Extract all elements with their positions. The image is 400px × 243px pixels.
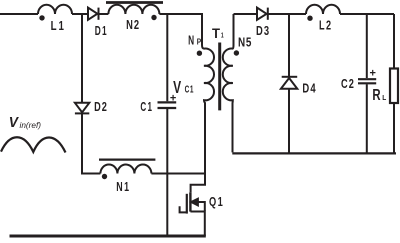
wire D4 to output rail [288,89,290,154]
svg-text:L2: L2 [319,19,333,33]
transistor Q1 MOSFET [191,174,205,193]
svg-text:P: P [197,38,201,47]
svg-text:N: N [188,34,194,48]
winding N1 [100,165,151,174]
transformer T1 primary winding NP [202,14,214,174]
wire D2 to N1 [82,113,100,173]
svg-text:1: 1 [221,30,224,39]
wire C2 to output rail [366,84,368,153]
svg-text:D3: D3 [256,24,270,38]
svg-text:in(ref): in(ref) [20,121,42,130]
svg-text:R: R [372,87,381,104]
resistor RL [393,14,395,69]
wire C1 to bottom rail [166,109,168,236]
wire D1 to N2 [99,13,109,15]
svg-text:D2: D2 [94,100,108,114]
wire branch to C1 [166,14,168,101]
wire branch to D2 [81,14,83,103]
wire secondary top to D3 [234,13,258,15]
svg-text:C1: C1 [185,85,195,96]
svg-text:N2: N2 [126,18,140,32]
inductor L1 [38,5,72,14]
polarity dot N2 [151,15,156,20]
svg-text:+: + [370,68,376,80]
svg-text:N1: N1 [116,180,130,194]
wire D3 to L2 [268,13,306,15]
svg-text:+: + [170,93,176,105]
wire N1 to drain node [151,173,205,175]
diode D4 [282,76,298,78]
svg-text:L: L [382,93,386,102]
capacitor C1 [158,101,177,103]
svg-text:Q1: Q1 [209,195,224,209]
svg-text:D1: D1 [95,24,108,38]
svg-text:C1: C1 [140,100,153,114]
winding N2 [108,5,159,14]
svg-text:C2: C2 [341,77,355,91]
svg-text:V: V [9,114,20,131]
polarity dot L1 [39,15,44,20]
wire top left input [0,13,38,15]
inductor L2 [306,5,340,14]
diode D2 [75,103,89,113]
wire L1 to D1 [72,13,88,15]
core bar N2 [106,1,163,4]
svg-text:N5: N5 [238,35,252,49]
wire output bottom rail [232,152,396,154]
polarity dot L2 [307,16,312,21]
core bar N1 [99,159,155,161]
transformer T1 core [218,43,221,111]
wire bottom rail [10,235,206,238]
polarity dot NP [197,51,202,56]
capacitor C2 [358,78,376,80]
polarity dot N5 [234,50,239,55]
svg-text:L1: L1 [51,19,66,33]
transformer T1 secondary winding N5 [223,14,234,152]
diode D3 [257,8,267,20]
wire branch C2 [366,14,368,78]
wire N2 to primary [159,13,203,15]
wire branch D4 [288,14,290,76]
polarity dot N1 [102,174,107,179]
waveform V_in [1,137,66,152]
wire L2 to right corner [340,13,394,15]
svg-text:T: T [212,26,220,42]
diode D1 [88,8,97,20]
svg-text:D4: D4 [302,81,316,95]
